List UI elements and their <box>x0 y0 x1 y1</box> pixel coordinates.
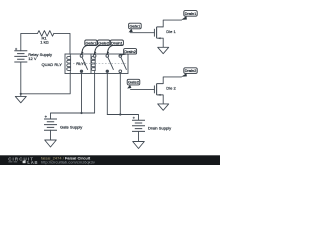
svg-text:Drain2: Drain2 <box>124 49 137 54</box>
svg-text:Drain1: Drain1 <box>185 11 198 16</box>
svg-text:Drain2: Drain2 <box>185 68 198 73</box>
svg-text:QUAD RLY: QUAD RLY <box>42 62 63 67</box>
svg-text:RLY1: RLY1 <box>76 61 87 66</box>
svg-text:Gate1: Gate1 <box>85 40 97 45</box>
svg-text:Gate2: Gate2 <box>98 40 110 45</box>
svg-text:http://circuitlab.com/cmz6qk3v: http://circuitlab.com/cmz6qk3v <box>41 159 95 164</box>
svg-text:LAB: LAB <box>27 160 38 165</box>
svg-text:Gate2: Gate2 <box>128 80 140 85</box>
svg-text:Die 2: Die 2 <box>166 86 176 91</box>
svg-text:Die 1: Die 1 <box>166 29 176 34</box>
svg-text:1 kΩ: 1 kΩ <box>40 39 48 44</box>
svg-text:Gate1: Gate1 <box>129 24 141 29</box>
svg-text:Drain Supply: Drain Supply <box>148 126 172 131</box>
svg-text:12 V: 12 V <box>28 56 37 61</box>
svg-text:Drain1: Drain1 <box>111 40 124 45</box>
svg-text:Gate Supply: Gate Supply <box>60 124 83 129</box>
